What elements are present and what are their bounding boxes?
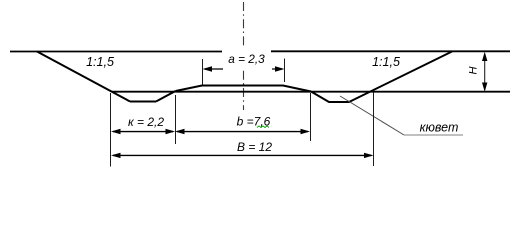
svg-text:Н: Н bbox=[467, 66, 479, 74]
right ditch and cut slope 1:1,5 bbox=[311, 52, 452, 103]
extension line x=175 (k/b boundary) bbox=[175, 95, 177, 144]
dimension a extension line left bbox=[202, 59, 204, 85]
dimension a right arrow bbox=[272, 68, 282, 70]
left ditch inner slope bbox=[156, 91, 176, 102]
extension line x=310 (right edge of b) bbox=[310, 93, 312, 141]
svg-text:B = 12: B = 12 bbox=[237, 140, 272, 154]
left ditch bottom bbox=[130, 101, 156, 103]
kuvet underline bbox=[404, 134, 463, 136]
svg-text:a = 2,3: a = 2,3 bbox=[228, 52, 265, 66]
svg-text:1:1,5: 1:1,5 bbox=[86, 55, 114, 69]
dimension B line bbox=[113, 154, 372, 156]
dimension a extension line right bbox=[284, 59, 286, 83]
ground line left bbox=[10, 51, 222, 53]
svg-text:к = 2,2: к = 2,2 bbox=[128, 115, 164, 129]
dimension k line bbox=[113, 131, 173, 133]
ground line right bbox=[271, 50, 510, 52]
svg-text:1:1,5: 1:1,5 bbox=[372, 55, 400, 69]
roadbed / ground-level line bbox=[112, 91, 510, 93]
dimension b line bbox=[177, 131, 308, 133]
svg-text:кювет: кювет bbox=[420, 121, 459, 135]
left cut slope 1:1,5 bbox=[37, 52, 130, 102]
extension line x=373.5 (right edge of B) bbox=[373, 92, 375, 166]
road crown (pavement) bbox=[176, 86, 312, 92]
green spellcheck squiggle under 7,6 bbox=[257, 126, 269, 128]
dimension H line with arrows bbox=[484, 54, 486, 90]
kuvet leader line bbox=[340, 96, 404, 135]
extension line x=111 (left edge of k and B) bbox=[110, 93, 112, 167]
centerline (vertical dash-dot axis) bbox=[243, 2, 245, 110]
svg-text:b =7,6: b =7,6 bbox=[237, 115, 271, 129]
dimension a left arrow bbox=[205, 68, 223, 70]
white text box behind label a bbox=[223, 46, 271, 68]
